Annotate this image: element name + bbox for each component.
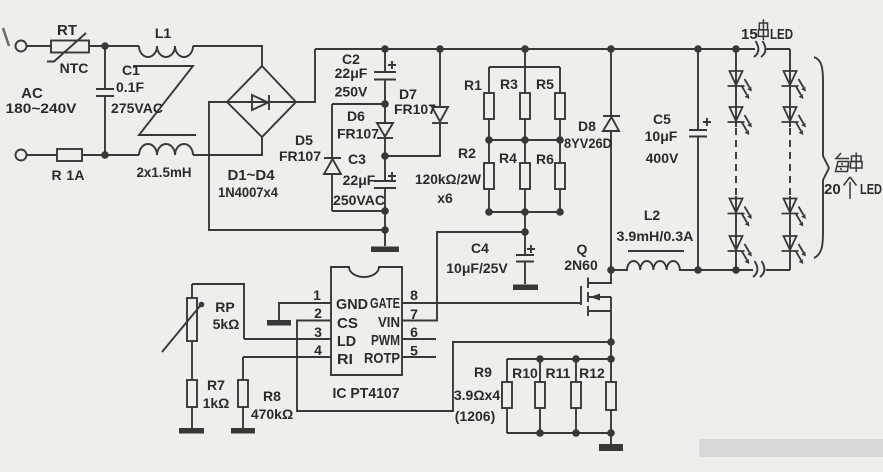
svg-text:8: 8 — [410, 287, 418, 303]
wire bridge positive output to top rail — [296, 49, 315, 102]
node LED string top dot — [732, 45, 740, 53]
wire LED string 2 column — [789, 49, 791, 270]
glyph 个 (of 20个LED) — [844, 177, 857, 199]
svg-text:RI: RI — [337, 351, 353, 368]
label 250V (C2) — [335, 84, 368, 100]
ground pin1 — [267, 320, 291, 326]
label 2x1.5mH — [137, 164, 192, 180]
pin 4 number — [314, 342, 322, 358]
diode D7 FR107 — [385, 49, 448, 156]
LED string1 D-a — [728, 71, 752, 99]
svg-text:D7: D7 — [399, 86, 417, 102]
wire pin1 GND to ground — [279, 303, 331, 320]
label 8YV26D — [564, 135, 612, 151]
wire pin2 CS to sense node — [297, 321, 611, 412]
wire D5 bottom to C3 bottom node — [332, 210, 385, 212]
svg-text:6: 6 — [410, 324, 418, 340]
label C4 — [471, 240, 489, 256]
svg-text:LED: LED — [860, 181, 882, 198]
bridge rectifier D1~D4 diamond — [227, 66, 296, 137]
label 5kΩ — [213, 316, 240, 332]
capacitor C2 electrolytic — [374, 49, 396, 104]
label 400V (C5) — [646, 150, 679, 166]
label D7 — [399, 86, 417, 102]
svg-text:L1: L1 — [155, 25, 172, 41]
wire R-network to C4 node — [524, 212, 526, 232]
svg-text:275VAC: 275VAC — [111, 100, 163, 116]
wire R8 to pin4 RI — [243, 356, 331, 358]
wire RT to node A — [90, 45, 139, 47]
label D5 — [295, 132, 313, 148]
resistor R3 — [520, 93, 530, 140]
label (1206) — [455, 408, 495, 424]
label R7 — [207, 377, 225, 393]
node C2-D6 junction dot — [381, 100, 389, 108]
capacitor C4 electrolytic — [516, 232, 535, 284]
label 10uF/25V — [446, 260, 508, 276]
svg-text:x6: x6 — [437, 190, 453, 206]
svg-text:4: 4 — [314, 342, 322, 358]
wire R9-R12 top rail — [507, 359, 611, 382]
capacitor C3 electrolytic — [374, 156, 396, 230]
svg-text:R3: R3 — [500, 76, 518, 92]
label L1 — [155, 25, 172, 41]
dashed wire LED string 1 — [735, 128, 737, 196]
svg-text:1kΩ: 1kΩ — [203, 395, 230, 411]
resistor RT (NTC thermistor) — [47, 33, 89, 62]
label R3 — [500, 76, 518, 92]
svg-text:FR107: FR107 — [279, 148, 321, 164]
svg-text:180~240V: 180~240V — [6, 100, 78, 116]
wire bottom input to fuse — [27, 154, 58, 156]
wire R-network bottom rail — [489, 211, 560, 213]
node LED string bottom dot — [732, 266, 740, 274]
inductor L1 core Z symbol — [133, 66, 196, 135]
wire D5 branch top — [332, 103, 385, 105]
label R1 — [464, 77, 482, 93]
svg-text:ROTP: ROTP — [364, 350, 400, 367]
svg-text:RT: RT — [57, 22, 77, 39]
resistor R5 — [555, 93, 565, 140]
svg-text:LED: LED — [770, 26, 793, 43]
wire top rail — [315, 48, 755, 50]
wire R-network middle rail — [489, 139, 560, 141]
label AC — [21, 85, 43, 102]
ground below R12 — [599, 444, 623, 451]
label NTC — [60, 60, 89, 76]
svg-text:400V: 400V — [646, 150, 679, 166]
svg-text:NTC: NTC — [60, 60, 89, 76]
label R11 — [546, 365, 571, 381]
label FR107 (D5) — [279, 148, 321, 164]
svg-text:0.1F: 0.1F — [116, 79, 144, 95]
node R11 top dot — [572, 355, 580, 363]
inductor L2 — [611, 261, 698, 270]
label PWM pin — [371, 332, 400, 349]
wire pin7 VIN to C4 node — [402, 232, 525, 321]
svg-text:470kΩ: 470kΩ — [251, 406, 293, 422]
label 1kΩ — [203, 395, 230, 411]
node C3-D5 junction dot — [381, 207, 389, 215]
node C4 top dot — [521, 228, 529, 236]
svg-text:R2: R2 — [458, 145, 476, 161]
LED string2 D-a — [782, 71, 806, 99]
ground below R7 — [179, 428, 204, 434]
wire pin8 GATE to Q gate — [402, 302, 581, 304]
glyph 串 (of 每串) — [851, 153, 863, 173]
label R 1A — [52, 167, 85, 183]
node D7 top dot — [436, 45, 444, 53]
svg-text:L2: L2 — [644, 207, 661, 223]
svg-text:22μF: 22μF — [335, 65, 368, 81]
wire top rail right segment with break — [766, 48, 790, 50]
svg-text:2N60: 2N60 — [564, 257, 598, 273]
label C2 — [342, 51, 360, 67]
pin 3 number — [314, 324, 322, 340]
fuse R 1A — [57, 149, 82, 161]
label 3.9mH/0.3A — [617, 228, 694, 244]
label R9 — [474, 364, 492, 380]
glyph 每 (of 每串) — [835, 153, 850, 172]
label IC PT4107 — [333, 385, 400, 402]
svg-text:3.9mH/0.3A: 3.9mH/0.3A — [617, 228, 694, 244]
label R6 — [536, 151, 554, 167]
node bottom rail dots — [485, 208, 564, 216]
label Q — [577, 241, 588, 257]
label R5 — [536, 76, 554, 92]
node L2 left dot — [607, 266, 615, 274]
label 180~240V — [6, 100, 78, 116]
node Q source dot — [607, 338, 615, 346]
label L2 — [644, 207, 661, 223]
wire L1 bottom to bridge bottom corner — [193, 137, 262, 155]
svg-text:10μF: 10μF — [645, 128, 678, 144]
diode D6 FR107 — [377, 104, 393, 156]
label R8 — [263, 388, 281, 404]
svg-text:R10: R10 — [512, 365, 538, 381]
diode D5 FR107 — [324, 104, 341, 211]
glyph 串 (of 15串LED) — [758, 19, 768, 40]
wire L1 top to bridge top corner — [193, 46, 262, 66]
pin 6 number — [410, 324, 418, 340]
svg-text:D1~D4: D1~D4 — [227, 167, 275, 184]
label D1~D4 — [227, 167, 275, 184]
break mark top rail — [754, 41, 765, 57]
svg-text:120kΩ/2W: 120kΩ/2W — [415, 171, 482, 187]
svg-text:R1: R1 — [464, 77, 482, 93]
svg-text:1: 1 — [313, 287, 321, 303]
label 1N4007x4 — [218, 184, 278, 200]
svg-text:22μF: 22μF — [343, 172, 376, 188]
pin 7 number — [410, 306, 418, 322]
svg-text:20: 20 — [824, 181, 841, 198]
label 22uF (C3) — [343, 172, 376, 188]
svg-text:C4: C4 — [471, 240, 489, 256]
svg-text:C1: C1 — [122, 62, 140, 78]
label 15串LED — [741, 26, 793, 43]
ground below R8 — [231, 428, 255, 434]
transistor Q 2N60 MOSFET — [581, 270, 611, 342]
node mid rail dots — [485, 136, 564, 144]
label 0.1F — [116, 79, 144, 95]
svg-text:D6: D6 — [347, 108, 365, 124]
svg-text:D8: D8 — [578, 118, 596, 134]
pin 5 number — [410, 343, 418, 359]
svg-text:Q: Q — [577, 241, 588, 257]
LED string2 D-c — [782, 199, 806, 227]
break mark bottom rail — [753, 261, 764, 277]
svg-text:R8: R8 — [263, 388, 281, 404]
svg-text:CS: CS — [337, 315, 358, 332]
LED string1 D-c — [728, 199, 752, 227]
node C5 bottom dot — [694, 266, 702, 274]
svg-text:2: 2 — [314, 305, 322, 321]
label D8 — [578, 118, 596, 134]
label 10uF (C5) — [645, 128, 678, 144]
svg-text:R7: R7 — [207, 377, 225, 393]
capacitor C5 electrolytic — [689, 49, 711, 270]
node R11 bottom dot — [572, 429, 580, 437]
svg-text:10μF/25V: 10μF/25V — [446, 260, 508, 276]
capacitor C1 — [96, 46, 114, 155]
svg-text:R12: R12 — [579, 365, 605, 381]
label R10 — [512, 365, 538, 381]
svg-text:GATE: GATE — [370, 295, 400, 312]
wire pin5 ROTP stub — [402, 356, 436, 358]
label D6 — [347, 108, 365, 124]
LED string2 D-d — [782, 236, 806, 264]
label RT — [57, 22, 77, 39]
svg-text:D5: D5 — [295, 132, 313, 148]
node R10 top dot — [536, 355, 544, 363]
resistor R2 — [484, 140, 494, 212]
node R9 rail dot — [607, 355, 615, 363]
svg-text:R5: R5 — [536, 76, 554, 92]
resistor R4 — [520, 140, 530, 212]
label LD pin — [337, 333, 356, 350]
label 250VAC (C3) — [333, 192, 385, 208]
node R-network top dot — [521, 45, 529, 53]
label C5 — [653, 111, 671, 127]
resistor R8 — [238, 357, 248, 428]
svg-text:250V: 250V — [335, 84, 368, 100]
wire RP to pin3 LD — [244, 338, 331, 340]
label FR107 (D7) — [394, 101, 436, 117]
resistor R10 — [535, 382, 545, 433]
pin 2 number — [314, 305, 322, 321]
wire bridge negative output left-down to ground rail — [209, 102, 385, 230]
node D8 top dot — [607, 45, 615, 53]
inductor L1 common-mode choke top winding — [139, 46, 193, 57]
resistor R12 — [606, 382, 616, 433]
svg-text:R9: R9 — [474, 364, 492, 380]
svg-text:2x1.5mH: 2x1.5mH — [137, 164, 192, 180]
svg-text:(1206): (1206) — [455, 408, 495, 424]
svg-text:VIN: VIN — [378, 314, 400, 331]
dashed wire LED string 2 — [789, 128, 791, 196]
scan smudge top-left — [3, 28, 9, 46]
LED string1 D-b — [728, 107, 752, 135]
wire top input to RT — [27, 45, 53, 47]
op-amp U1 IC PT4107 body — [331, 267, 402, 375]
node B junction dot — [101, 151, 109, 159]
inductor L1 bottom winding 2x1.5mH — [139, 144, 193, 155]
svg-text:15: 15 — [741, 26, 758, 43]
label VIN pin — [378, 314, 400, 331]
svg-text:GND: GND — [336, 296, 368, 313]
svg-text:R4: R4 — [499, 150, 517, 166]
wire R9-R12 bottom rail — [507, 433, 611, 444]
svg-text:LD: LD — [337, 333, 356, 350]
terminal bottom input — [16, 150, 27, 161]
brace right 15 strings — [814, 57, 829, 258]
diode D8 8YV26D — [603, 49, 620, 270]
label 3.9Ωx4 — [454, 387, 500, 403]
label 2N60 — [564, 257, 598, 273]
svg-text:R11: R11 — [546, 365, 571, 381]
resistor R11 — [571, 382, 581, 433]
LED string2 D-b — [782, 107, 806, 135]
label R4 — [499, 150, 517, 166]
svg-text:3.9Ωx4: 3.9Ωx4 — [454, 387, 500, 403]
label FR107 (D6) — [337, 126, 379, 142]
pin 8 number — [410, 287, 418, 303]
svg-text:IC PT4107: IC PT4107 — [333, 385, 400, 402]
label CS pin — [337, 315, 358, 332]
wire source node down to R9 rail — [610, 342, 612, 359]
svg-text:3: 3 — [314, 324, 322, 340]
svg-text:C3: C3 — [348, 151, 366, 167]
pin 1 number — [313, 287, 321, 303]
label x6 — [437, 190, 453, 206]
svg-text:FR107: FR107 — [394, 101, 436, 117]
resistor R9 — [502, 382, 512, 433]
svg-text:FR107: FR107 — [337, 126, 379, 142]
wire pin6 PWM stub — [402, 338, 436, 340]
node A junction dot — [101, 42, 109, 50]
ground below C3 — [371, 230, 399, 252]
wire fuse to node B — [82, 154, 139, 156]
svg-text:250VAC: 250VAC — [333, 192, 385, 208]
svg-text:8YV26D: 8YV26D — [564, 135, 612, 151]
ground below C4 — [513, 285, 538, 291]
label 120kΩ/2W — [415, 171, 482, 187]
label 22uF (C2) — [335, 65, 368, 81]
svg-text:R 1A: R 1A — [52, 167, 85, 183]
resistor R1 — [484, 93, 494, 140]
label 275VAC — [111, 100, 163, 116]
underline of L2 label — [628, 250, 684, 252]
LED string1 D-d — [728, 236, 752, 264]
node C5 top dot — [694, 45, 702, 53]
label C3 — [348, 151, 366, 167]
wire LED string 1 column — [735, 49, 737, 270]
svg-text:R6: R6 — [536, 151, 554, 167]
label R12 — [579, 365, 605, 381]
node C3 bottom junction dot — [381, 226, 389, 234]
node D6-C3-D7 junction dot — [381, 152, 389, 160]
resistor R6 — [555, 140, 565, 212]
label RI pin — [337, 351, 353, 368]
label GATE pin — [370, 295, 400, 312]
wire R-network top bracket — [489, 49, 560, 93]
svg-text:5kΩ: 5kΩ — [213, 316, 240, 332]
watermark gray bar bottom right — [699, 439, 883, 457]
svg-text:PWM: PWM — [371, 332, 400, 349]
svg-text:C5: C5 — [653, 111, 671, 127]
node C2 top dot — [381, 45, 389, 53]
node R12 bottom dot — [607, 429, 615, 437]
wire bottom LED rail — [698, 269, 790, 271]
label ROTP pin — [364, 350, 400, 367]
node R10 bottom dot — [536, 429, 544, 437]
svg-text:RP: RP — [215, 299, 234, 315]
label RP — [215, 299, 234, 315]
label 20个LED — [824, 181, 882, 198]
terminal top input — [16, 41, 27, 52]
resistor R7 — [187, 380, 197, 428]
label C1 — [122, 62, 140, 78]
label R2 — [458, 145, 476, 161]
label 470kΩ — [251, 406, 293, 422]
label GND pin — [336, 296, 368, 313]
potentiometer RP 5k — [162, 284, 244, 380]
svg-text:1N4007x4: 1N4007x4 — [218, 184, 278, 200]
